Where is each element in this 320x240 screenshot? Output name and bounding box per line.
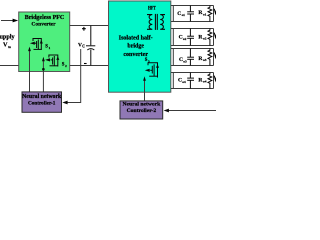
converter block: Bridgeless PFC Converter	[19, 12, 70, 72]
transformer HFT symbol	[147, 14, 165, 30]
output cell 1	[171, 6, 214, 22]
output cell 3	[171, 49, 214, 66]
arrowhead to controller-2	[164, 109, 169, 113]
wire right side 2	[213, 29, 215, 46]
wire bottom rail 1	[171, 21, 214, 23]
wire: gate drive to S3	[144, 80, 146, 101]
output cell 2	[171, 29, 214, 46]
wire bottom rail 3	[171, 65, 214, 67]
transistor S2 (MOSFET)	[49, 55, 58, 67]
resistor Ro3	[208, 49, 212, 66]
wire: DC bus top rail	[70, 25, 109, 27]
wire: input supply line	[1, 20, 13, 22]
wire top rail 4	[171, 72, 214, 74]
wire right side 4	[213, 73, 215, 89]
capacitor Co4	[187, 73, 194, 89]
svg-text:o2: o2	[203, 37, 207, 41]
resistor Ro1	[208, 6, 212, 22]
label Vo3 (clipped)	[214, 53, 217, 58]
junction dot	[42, 68, 45, 71]
label plus	[82, 27, 86, 31]
wire bottom rail 4	[171, 88, 214, 90]
wire: feedback to controller-2	[169, 110, 217, 112]
wire left side 3	[172, 49, 174, 66]
resistor Ro4	[208, 73, 212, 89]
wire: supply return	[0, 65, 19, 67]
svg-text:HFT: HFT	[148, 5, 156, 11]
svg-text:Converter: Converter	[31, 21, 56, 27]
wire top rail 3	[171, 48, 214, 50]
svg-text:o1: o1	[182, 13, 186, 17]
svg-text:Neural network: Neural network	[123, 102, 162, 108]
wire left side 2	[172, 29, 174, 46]
wire: gate drive to S2	[42, 61, 44, 92]
output cell 4	[171, 73, 214, 89]
capacitor Co1	[187, 6, 194, 22]
svg-text:Supply: Supply	[0, 34, 15, 41]
wire right side 3	[213, 49, 215, 66]
svg-text:o4: o4	[203, 80, 207, 84]
svg-text:Controller-2: Controller-2	[127, 108, 157, 114]
svg-text:bridge: bridge	[127, 44, 144, 50]
wire bottom rail 2	[171, 45, 214, 47]
controller block: Neural network Controller-1	[22, 92, 62, 112]
capacitor Co3	[187, 49, 194, 66]
label Vo4 (clipped)	[214, 76, 217, 81]
svg-text:o3: o3	[203, 58, 207, 62]
transistor S3 (MOSFET)	[148, 63, 158, 78]
svg-text:o2: o2	[183, 37, 187, 41]
wire left side 4	[172, 73, 174, 89]
svg-text:C: C	[82, 45, 85, 49]
svg-text:o3: o3	[183, 59, 187, 63]
wire right side 1	[213, 6, 215, 22]
wire: gate drive to S1	[29, 51, 31, 93]
wire left side 1	[172, 6, 174, 22]
label Vo1 (clipped)	[214, 9, 217, 14]
label minus	[84, 63, 87, 65]
capacitor C (DC link)	[86, 26, 95, 66]
svg-text:in: in	[8, 45, 11, 49]
svg-text:Controller-1: Controller-1	[28, 100, 56, 106]
wire top rail 1	[171, 5, 214, 7]
arrowhead into PFC converter	[13, 19, 19, 23]
svg-text:o1: o1	[203, 13, 207, 17]
converter block: Isolated half-bridge converter	[109, 1, 171, 92]
resistor Ro2	[208, 29, 212, 46]
svg-text:Isolated half-: Isolated half-	[119, 35, 153, 41]
arrowhead to controller-1	[62, 101, 67, 105]
svg-text:o4: o4	[182, 80, 186, 84]
controller block: Neural network Controller-2	[120, 101, 163, 119]
capacitor Co2	[187, 29, 194, 46]
wire top rail 2	[171, 28, 214, 30]
label Vo2 (clipped)	[214, 33, 217, 38]
svg-text:Bridgeless PFC: Bridgeless PFC	[25, 15, 65, 21]
svg-text:converter: converter	[123, 52, 148, 58]
wire: DC bus bottom rail	[70, 65, 109, 67]
wire: Vc sense to controller-1	[67, 49, 81, 103]
transistor S1 (MOSFET)	[33, 39, 41, 51]
svg-text:Neural network: Neural network	[22, 94, 62, 100]
